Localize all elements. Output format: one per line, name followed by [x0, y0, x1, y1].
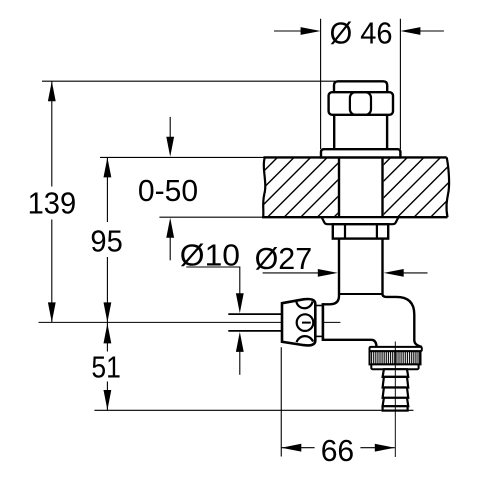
hose union nut bottom rim: [371, 364, 418, 369]
locknut facet lines: [344, 224, 346, 238]
countertop left broken edge: [263, 157, 265, 217]
svg-text:0-50: 0-50: [138, 174, 198, 208]
hose barb rib 2: [383, 377, 409, 388]
dim 95 vertical line: [106, 157, 108, 222]
spindle top line: [228, 313, 282, 315]
dim O10 lower arrow: [239, 349, 241, 375]
svg-text:139: 139: [28, 187, 77, 221]
pipe/body seam line: [339, 293, 383, 295]
hose barb rib 3: [383, 388, 409, 398]
top reference line (139 upper extent): [42, 80, 335, 82]
threaded neck: [333, 115, 335, 150]
dim O27 right tail and arrow: [403, 272, 428, 274]
dim 0-50 lower arrow: [169, 235, 171, 260]
hose barb rib 4: [383, 398, 409, 406]
handle knob: [282, 299, 315, 345]
spindle bottom line: [228, 330, 282, 332]
knob bottom facet arc: [297, 336, 314, 342]
housing bottom edge: [322, 340, 376, 347]
dim 0-50 upper arrow: [169, 117, 171, 140]
dim line at barb bottom (51 lower extent): [94, 409, 413, 411]
svg-text:95: 95: [90, 225, 122, 259]
svg-text:Ø10: Ø10: [180, 238, 240, 272]
countertop bottom surface line: [159, 216, 263, 218]
dim O46 left tail and arrow: [274, 30, 303, 32]
dim 66 line left part: [281, 447, 314, 449]
svg-text:66: 66: [321, 434, 355, 468]
hex nut (top): [329, 92, 393, 115]
dim 139 vertical line: [51, 81, 53, 186]
top cap of tap: [334, 81, 387, 96]
dim O46 right tail and arrow: [418, 30, 444, 32]
washer under counter: [322, 217, 399, 224]
svg-text:Ø 46: Ø 46: [330, 16, 393, 50]
collar bottom edge: [315, 335, 322, 337]
hose union nut top rim: [370, 347, 422, 351]
valve body: left pipe wall through counter, corner into housing top: [323, 157, 339, 304]
collar top edge: [315, 305, 322, 307]
base flange: [321, 149, 400, 157]
hose barb rib 1: [383, 369, 409, 377]
knob middle facet circle: [297, 314, 314, 331]
svg-text:Ø27: Ø27: [255, 242, 313, 276]
dim O10 leader: [186, 267, 240, 295]
housing left edge: [322, 303, 325, 341]
dim O46 right extension line: [399, 19, 401, 149]
hose barb end band: [383, 406, 408, 410]
dim 66 left extension line: [280, 347, 282, 456]
dim O27 left leader and arrow: [263, 272, 320, 274]
dim O46 left extension line: [320, 19, 322, 149]
main horizontal centerline: [39, 321, 283, 323]
barb vertical centerline: [394, 342, 396, 458]
dim 66 line right part: [360, 447, 394, 449]
countertop right broken edge: [446, 157, 449, 217]
countertop top surface line: [100, 156, 265, 158]
valve body: right pipe wall and elbow outer curve: [383, 157, 422, 347]
knob top facet arc: [296, 301, 312, 308]
hex nut middle facet: [350, 92, 371, 115]
knob facet dash: [302, 322, 311, 324]
locknut under counter: [333, 224, 388, 238]
svg-text:51: 51: [91, 351, 121, 385]
dim 51 vertical line: [106, 322, 108, 351]
housing centerline stub: [324, 321, 341, 323]
